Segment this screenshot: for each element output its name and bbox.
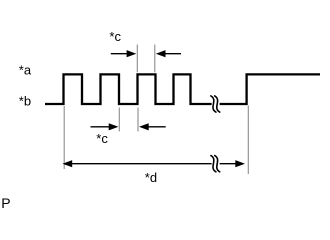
extension line d right — [247, 106, 249, 175]
svg-text:*a: *a — [19, 63, 32, 78]
svg-text:*c: *c — [96, 131, 108, 146]
extension line top-right of pulse 3 — [154, 45, 156, 73]
dimension line d double arrow — [70, 163, 237, 165]
svg-text:*d: *d — [145, 170, 157, 185]
d break squiggle left — [211, 156, 216, 172]
extension line bottom-right of low gap — [137, 108, 139, 132]
d break squiggle right — [215, 156, 220, 172]
svg-text:*b: *b — [19, 94, 31, 109]
extension line d left — [63, 106, 65, 169]
bottom arrow pointing left — [148, 126, 166, 128]
extension line top-left of pulse 3 — [136, 45, 138, 73]
waveform break squiggle left — [211, 96, 216, 112]
bottom arrow pointing right — [91, 126, 110, 128]
svg-text:*c: *c — [109, 29, 121, 44]
svg-text:P: P — [1, 195, 10, 210]
d line break gap — [212, 159, 220, 169]
wire pulse waveform — [45, 74, 320, 104]
waveform break squiggle right — [215, 96, 220, 112]
top arrow pointing left — [165, 53, 182, 55]
extension line bottom-left of low gap — [118, 108, 120, 132]
waveform break gap — [212, 99, 220, 109]
top arrow pointing right — [111, 53, 128, 55]
